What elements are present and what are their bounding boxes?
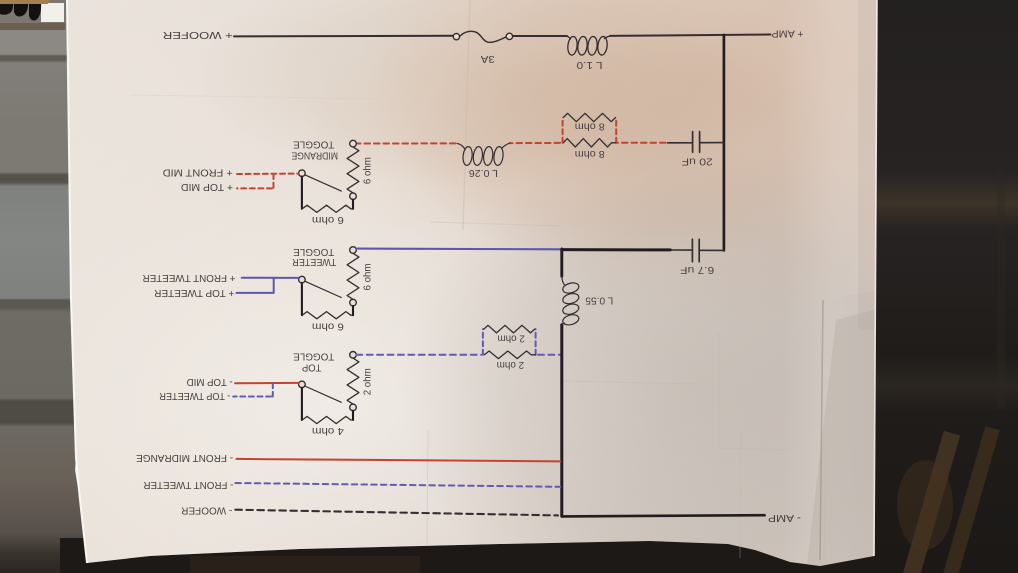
wire +WOOFER lead	[234, 35, 453, 38]
wire fuse to L1.0	[513, 35, 567, 37]
wire blue dashed 2ohm pair to bus	[538, 354, 561, 356]
wire red solid -TOP MID to pole	[235, 382, 298, 384]
svg-text:6 ohm: 6 ohm	[312, 214, 344, 226]
wire blue dashed top toggle to 2ohm pair	[356, 354, 481, 356]
node 2ohm box left leg (blue dashed)	[482, 329, 484, 355]
switch TOP TOGGLE: top contact	[350, 352, 357, 359]
svg-text:- TOP TWEETER: - TOP TWEETER	[159, 390, 230, 402]
svg-text:6 ohm: 6 ohm	[361, 263, 373, 290]
resistor 8 ohm (upper of pair)	[563, 113, 615, 121]
wire red dashed cap to 8ohm pair	[618, 142, 666, 144]
resistor 6 ohm (horizontal)	[302, 312, 353, 319]
node 2ohm box right leg (blue dashed)	[535, 329, 537, 355]
node 8ohm box left leg (red dashed)	[562, 118, 564, 143]
svg-text:MIDRANGE: MIDRANGE	[291, 149, 338, 161]
svg-text:+ AMP: + AMP	[772, 28, 804, 40]
wire pole down-leg	[301, 388, 303, 420]
svg-text:3A: 3A	[481, 53, 495, 65]
svg-text:- TOP MID: - TOP MID	[186, 376, 232, 388]
svg-text:TWEETER: TWEETER	[292, 256, 336, 268]
wire blue tweeter toggle to 6.7uF	[356, 248, 561, 251]
capacitor 6.7 uF	[692, 239, 699, 262]
wire black dashed -WOOFER	[235, 510, 558, 516]
svg-text:- FRONT MIDRANGE: - FRONT MIDRANGE	[136, 452, 233, 464]
svg-text:+ TOP TWEETER: + TOP TWEETER	[154, 287, 234, 299]
svg-text:- AMP: - AMP	[768, 512, 801, 524]
wire 6.7uF branch right	[670, 249, 724, 251]
wire blue branch leg	[237, 278, 274, 293]
wire 20uF branch	[668, 142, 724, 144]
svg-text:20 uF: 20 uF	[682, 155, 713, 167]
svg-text:+ FRONT MID: + FRONT MID	[162, 167, 232, 179]
resistor 6 ohm (vertical)	[347, 147, 359, 193]
svg-text:+ FRONT TWEETER: + FRONT TWEETER	[142, 272, 235, 284]
switch TWEETER TOGGLE: pole contact	[299, 276, 306, 283]
svg-text:- WOOFER: - WOOFER	[181, 505, 232, 517]
wire red -FRONT MIDRANGE	[236, 459, 560, 462]
wire up to bottom contact	[352, 200, 354, 209]
switch TOP TOGGLE: pole contact	[299, 381, 306, 388]
wire blue dashed -FRONT TWEETER	[235, 483, 560, 487]
wire L1.0 to +AMP	[610, 35, 771, 36]
switch MIDRANGE TOGGLE: top contact	[350, 140, 357, 147]
wire up to bottom contact	[352, 306, 354, 315]
wire main vertical bus from +AMP node	[723, 35, 726, 250]
wire red dashed branch leg	[237, 174, 274, 188]
wire up to bottom contact	[352, 411, 354, 420]
wire bold 6.7uF branch left	[562, 248, 670, 251]
wire bold left bus lower	[560, 325, 563, 516]
switch TOP TOGGLE: bottom contact	[350, 404, 357, 411]
svg-text:8 ohm: 8 ohm	[574, 148, 604, 160]
resistor 8 ohm (lower of pair)	[563, 139, 616, 147]
switch TWEETER TOGGLE: top contact	[350, 247, 357, 254]
switch TWEETER TOGGLE: bottom contact	[350, 299, 357, 306]
wire pole down-leg	[301, 177, 303, 209]
svg-text:- FRONT TWEETER: - FRONT TWEETER	[143, 479, 233, 491]
resistor 2 ohm (lower of pair)	[484, 351, 535, 359]
wire blue +FRONT TWEETER to pole	[242, 277, 299, 279]
resistor 6 ohm (horizontal)	[302, 205, 353, 212]
switch TWEETER TOGGLE: lever	[305, 281, 342, 297]
wire pole down-leg	[301, 283, 303, 315]
svg-text:L 1.0: L 1.0	[576, 59, 602, 71]
wire bold left bus upper	[560, 249, 563, 276]
svg-text:2 ohm: 2 ohm	[361, 368, 373, 395]
wire red dashed L0.26 to midrange toggle	[357, 142, 455, 144]
svg-text:6.7 uF: 6.7 uF	[680, 264, 714, 276]
svg-text:2 ohm: 2 ohm	[497, 333, 525, 345]
svg-text:TOGGLE: TOGGLE	[293, 139, 334, 151]
capacitor 20 uF	[693, 132, 700, 153]
svg-text:L 0.55: L 0.55	[585, 294, 613, 306]
wire blue dashed -TOP TWEETER branch	[233, 383, 273, 396]
resistor 2 ohm (vertical)	[347, 358, 359, 404]
wire bold bottom to -AMP	[562, 515, 765, 516]
svg-text:4 ohm: 4 ohm	[312, 425, 344, 437]
svg-text:TOP: TOP	[302, 362, 322, 374]
svg-text:L 0.26: L 0.26	[469, 167, 498, 179]
svg-text:8 ohm: 8 ohm	[574, 121, 604, 133]
wire red dashed +FRONT MID to pole	[237, 173, 298, 175]
resistor 6 ohm (vertical)	[347, 253, 359, 299]
resistor 4 ohm (horizontal)	[302, 416, 353, 423]
node 8ohm box right leg (red dashed)	[615, 118, 617, 143]
inductor L 0.55 (vertical)	[562, 276, 580, 326]
svg-text:6 ohm: 6 ohm	[361, 157, 373, 184]
switch MIDRANGE TOGGLE: lever	[305, 175, 342, 191]
svg-text:6 ohm: 6 ohm	[312, 320, 344, 332]
wire red dashed 8ohm to L0.26	[510, 142, 560, 144]
resistor 2 ohm (upper of pair)	[484, 325, 535, 333]
inductor L 0.26	[457, 143, 509, 166]
svg-text:+ TOP MID: + TOP MID	[181, 181, 233, 193]
inductor L 1.0	[567, 36, 610, 56]
svg-text:2 ohm: 2 ohm	[496, 359, 524, 371]
svg-text:TOGGLE: TOGGLE	[293, 351, 334, 363]
switch MIDRANGE TOGGLE: bottom contact	[350, 193, 357, 200]
switch MIDRANGE TOGGLE: pole contact	[299, 170, 306, 177]
fuse F1 3A	[453, 31, 512, 42]
svg-text:+ WOOFER: + WOOFER	[162, 29, 233, 41]
switch TOP TOGGLE: lever	[305, 386, 342, 402]
